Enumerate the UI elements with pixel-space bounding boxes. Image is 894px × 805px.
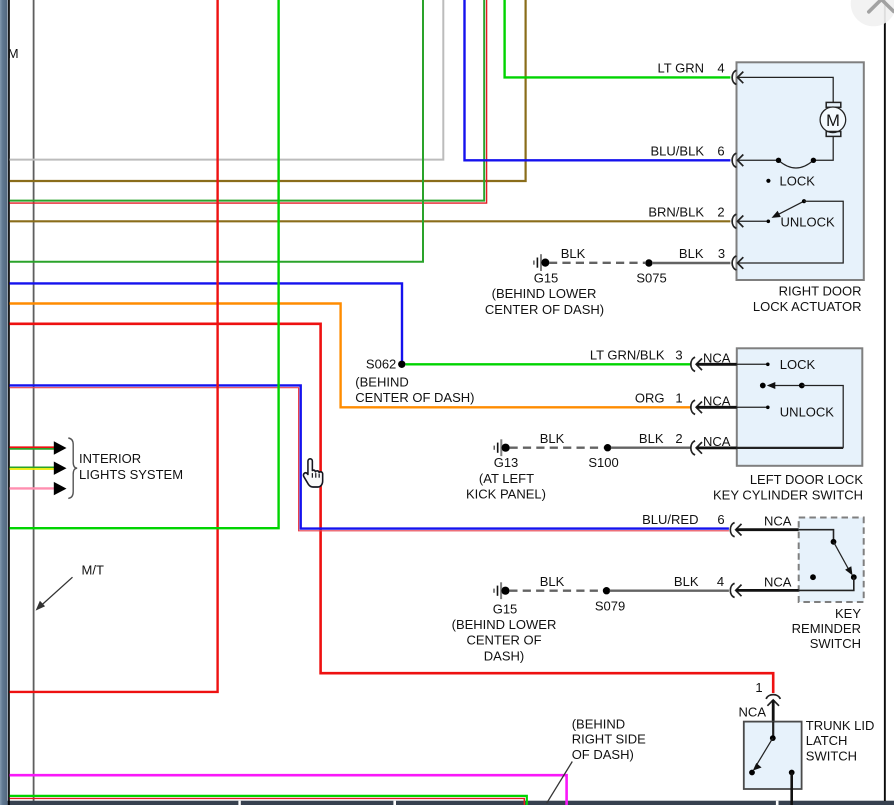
svg-text:S100: S100 bbox=[588, 455, 618, 470]
dashed BLK wire G15-S079 bbox=[509, 590, 602, 592]
svg-text:BLK: BLK bbox=[540, 431, 565, 446]
wire GRN/RED green part bbox=[10, 0, 485, 201]
NCA wire pin3 bbox=[697, 363, 737, 366]
pin 4 internal wire to motor bbox=[737, 77, 833, 102]
interior lights stub RED/GRN bbox=[10, 441, 67, 454]
leader line bbox=[547, 762, 573, 804]
M/T arrow bbox=[36, 577, 73, 610]
ground G13 bbox=[494, 439, 510, 456]
connector key pin 4 bbox=[730, 583, 741, 597]
cylinder lever bbox=[760, 382, 843, 448]
cyl pin3 internal bbox=[737, 363, 770, 367]
svg-text:DASH): DASH) bbox=[484, 648, 524, 663]
cyl pin1 internal bbox=[737, 406, 770, 410]
pin 6 internal switch bbox=[737, 136, 833, 168]
svg-text:NCA: NCA bbox=[764, 514, 792, 529]
dashed BLK wire G13-S100 bbox=[510, 447, 604, 449]
svg-text:M/T: M/T bbox=[82, 563, 104, 578]
cyl pin2 internal bbox=[737, 447, 843, 449]
svg-text:KICK PANEL): KICK PANEL) bbox=[466, 487, 546, 502]
svg-text:1: 1 bbox=[755, 680, 762, 695]
wire bottom green bbox=[10, 796, 527, 805]
svg-text:LOCK: LOCK bbox=[780, 173, 816, 188]
svg-text:BLU/BLK: BLU/BLK bbox=[651, 144, 705, 159]
key switch dots bbox=[810, 574, 816, 580]
svg-text:BLK: BLK bbox=[561, 246, 586, 261]
bottom bar gap 2 bbox=[393, 801, 396, 805]
interior lights stub GRN/YEL bbox=[10, 462, 67, 475]
solid BLK wire S075-pin3 bbox=[652, 262, 730, 264]
svg-text:LT GRN: LT GRN bbox=[658, 61, 704, 76]
svg-text:G13: G13 bbox=[494, 455, 519, 470]
pin 2 internal wire and unlock lever bbox=[737, 199, 843, 263]
svg-text:1: 1 bbox=[675, 391, 682, 406]
connector cyl pin 1 bbox=[691, 400, 702, 414]
NCA wire key pin6 bbox=[736, 528, 799, 531]
svg-text:LATCH: LATCH bbox=[806, 733, 848, 748]
svg-text:M: M bbox=[8, 46, 19, 61]
wire BLU to S062 bbox=[10, 283, 403, 362]
NCA wire pin1 bbox=[697, 406, 737, 409]
left black border bbox=[8, 0, 10, 805]
key pin4 internal bbox=[799, 577, 854, 590]
svg-text:BLK: BLK bbox=[540, 574, 565, 589]
interior lights stub PNK bbox=[10, 482, 67, 495]
wire grey bbox=[10, 0, 444, 160]
NCA wire key pin4 bbox=[736, 589, 799, 592]
connector key pin 6 bbox=[730, 523, 741, 537]
wire BLU/RED blue part bbox=[10, 385, 729, 528]
bottom dark bar bbox=[0, 801, 894, 805]
svg-text:LEFT DOOR LOCK: LEFT DOOR LOCK bbox=[750, 472, 864, 487]
svg-text:TRUNK LID: TRUNK LID bbox=[806, 718, 875, 733]
svg-text:NCA: NCA bbox=[764, 574, 792, 589]
svg-text:BLK: BLK bbox=[679, 246, 704, 261]
svg-text:LOCK: LOCK bbox=[780, 357, 816, 372]
svg-text:S062: S062 bbox=[366, 357, 396, 372]
svg-text:M: M bbox=[826, 112, 840, 130]
wire brown upper bbox=[10, 0, 526, 181]
bottom bar gap 3 bbox=[776, 801, 779, 805]
svg-text:3: 3 bbox=[675, 348, 682, 363]
connector cyl pin 3 bbox=[691, 357, 702, 371]
connector pin 4 bbox=[732, 70, 743, 84]
trunk lid latch switch box bbox=[744, 722, 802, 789]
left door lock key cylinder switch box bbox=[737, 348, 863, 466]
solid BLK wire S100-pin2 bbox=[611, 447, 691, 449]
svg-text:REMINDER: REMINDER bbox=[792, 621, 861, 636]
ground G15 lower bbox=[493, 582, 509, 599]
svg-text:RIGHT SIDE: RIGHT SIDE bbox=[572, 732, 646, 747]
left slate sidebar bbox=[0, 0, 8, 805]
svg-text:CENTER OF DASH): CENTER OF DASH) bbox=[485, 302, 604, 317]
NCA wire trunk bbox=[772, 700, 775, 722]
svg-text:CENTER OF DASH): CENTER OF DASH) bbox=[355, 390, 474, 405]
svg-text:G15: G15 bbox=[493, 601, 518, 616]
svg-text:UNLOCK: UNLOCK bbox=[781, 215, 836, 230]
wire dark green bbox=[10, 0, 424, 262]
svg-text:6: 6 bbox=[717, 144, 724, 159]
svg-text:NCA: NCA bbox=[703, 393, 731, 408]
dashed BLK wire G15-S075 bbox=[549, 262, 645, 264]
wire ORG bbox=[10, 304, 691, 408]
right page border bbox=[884, 0, 886, 801]
wire BLU/BLK bbox=[465, 0, 731, 160]
svg-text:3: 3 bbox=[718, 246, 725, 261]
key pin6 internal bbox=[799, 530, 853, 576]
svg-text:2: 2 bbox=[717, 205, 724, 220]
wire BLU/RED red part bbox=[10, 388, 729, 531]
splice S079 bbox=[603, 587, 610, 594]
svg-text:ORG: ORG bbox=[635, 391, 665, 406]
svg-text:(BEHIND LOWER: (BEHIND LOWER bbox=[492, 286, 597, 301]
bottom bar gap 1 bbox=[238, 801, 240, 805]
svg-text:LIGHTS SYSTEM: LIGHTS SYSTEM bbox=[79, 467, 183, 482]
svg-text:NCA: NCA bbox=[703, 350, 731, 365]
svg-text:NCA: NCA bbox=[739, 705, 767, 720]
splice S100 bbox=[604, 444, 611, 451]
svg-text:NCA: NCA bbox=[703, 434, 731, 449]
wire LT GRN/BLK S062 to pin bbox=[406, 363, 691, 365]
NCA wire pin2 bbox=[697, 446, 737, 449]
key reminder switch box bbox=[799, 518, 864, 603]
connector pin 3 bbox=[732, 256, 743, 270]
splice S075 bbox=[645, 259, 652, 266]
svg-text:G15: G15 bbox=[534, 270, 559, 285]
svg-text:INTERIOR: INTERIOR bbox=[79, 451, 141, 466]
wire BRN/BLK bbox=[10, 220, 731, 222]
svg-text:KEY CYLINDER SWITCH: KEY CYLINDER SWITCH bbox=[713, 488, 863, 503]
svg-text:LT GRN/BLK: LT GRN/BLK bbox=[590, 348, 665, 363]
solid BLK wire S079-pin4 bbox=[610, 590, 729, 592]
wire red long vertical bbox=[10, 0, 218, 692]
splice S062 bbox=[398, 361, 405, 368]
grey vertical reference line bbox=[33, 0, 35, 805]
scroll-to-top button bbox=[851, 0, 894, 26]
svg-text:UNLOCK: UNLOCK bbox=[780, 405, 835, 420]
svg-text:BLK: BLK bbox=[639, 431, 664, 446]
svg-text:S075: S075 bbox=[636, 270, 666, 285]
svg-text:4: 4 bbox=[717, 574, 724, 589]
svg-text:SWITCH: SWITCH bbox=[806, 749, 857, 764]
wire magenta bbox=[10, 775, 567, 805]
LOCK contact dot bbox=[766, 179, 770, 183]
connector cyl pin 2 bbox=[691, 441, 702, 455]
svg-text:BLU/RED: BLU/RED bbox=[642, 512, 698, 527]
svg-text:KEY: KEY bbox=[835, 606, 861, 621]
wire bright green tall bbox=[10, 0, 279, 528]
svg-text:BLK: BLK bbox=[674, 574, 699, 589]
svg-text:(AT LEFT: (AT LEFT bbox=[479, 471, 534, 486]
svg-text:BRN/BLK: BRN/BLK bbox=[648, 205, 704, 220]
svg-text:OF DASH): OF DASH) bbox=[572, 747, 634, 762]
ground G15 upper bbox=[533, 254, 549, 271]
svg-text:LOCK ACTUATOR: LOCK ACTUATOR bbox=[753, 299, 862, 314]
wire bottom red bbox=[10, 798, 525, 805]
connector trunk pin 1 bbox=[766, 695, 780, 706]
motor M bbox=[820, 102, 846, 136]
brace bbox=[68, 438, 77, 498]
svg-text:S079: S079 bbox=[595, 598, 625, 613]
svg-text:(BEHIND LOWER: (BEHIND LOWER bbox=[452, 617, 557, 632]
svg-text:RIGHT DOOR: RIGHT DOOR bbox=[779, 284, 862, 299]
mouse cursor bbox=[303, 459, 322, 487]
svg-text:4: 4 bbox=[717, 61, 724, 76]
right door lock actuator box bbox=[737, 62, 864, 280]
wire RED to trunk bbox=[10, 324, 774, 693]
connector pin 6 bbox=[732, 153, 743, 167]
svg-text:(BEHIND: (BEHIND bbox=[355, 374, 408, 389]
svg-text:CENTER OF: CENTER OF bbox=[466, 633, 541, 648]
connector pin 2 bbox=[732, 214, 743, 228]
wire GRN/RED red part bbox=[10, 0, 487, 203]
trunk internal switch bbox=[749, 722, 795, 805]
wire LT GRN bbox=[505, 0, 731, 77]
svg-text:(BEHIND: (BEHIND bbox=[572, 716, 625, 731]
svg-text:6: 6 bbox=[717, 512, 724, 527]
svg-text:SWITCH: SWITCH bbox=[810, 636, 861, 651]
svg-text:2: 2 bbox=[675, 431, 682, 446]
